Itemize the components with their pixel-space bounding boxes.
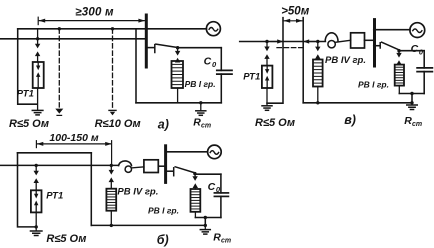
РТ1 external gap lower arrow (scheme б): [34, 178, 39, 190]
junction dot РВ I (scheme в): [397, 49, 400, 52]
РТ1 earth lead (scheme б): [35, 212, 38, 230]
РТ1 external gap upper arrow (scheme б): [34, 165, 39, 175]
РВ IV gap upper arrow (scheme б): [109, 165, 114, 174]
bottom earth wire (scheme в): [303, 102, 412, 104]
РТ1 earth lead (scheme в): [266, 88, 268, 106]
svg-text:100-150 м: 100-150 м: [49, 132, 98, 144]
tube arrester РТ1 (scheme в): [262, 66, 273, 88]
svg-text:С: С: [208, 181, 216, 193]
label 100-150 м: [49, 132, 98, 144]
dimension line ≥300 м (scheme а): [38, 17, 145, 24]
РВ IV junction dot (scheme б): [110, 164, 113, 167]
support ground lead 2 dashed (scheme а): [109, 27, 116, 115]
label С0 (scheme в): [411, 43, 424, 56]
label С0 (scheme б): [208, 181, 221, 194]
label R≤5 Ом (scheme в): [255, 117, 295, 129]
feeder to generator (scheme б): [167, 151, 208, 153]
РВ I earth lead (scheme в): [398, 86, 400, 94]
svg-text:ст: ст: [412, 121, 422, 128]
label R≤5 Ом (scheme б): [46, 233, 86, 245]
capacitor C0 plates (scheme в): [417, 68, 432, 72]
svg-text:ст: ст: [201, 123, 211, 130]
РТ1 earth lead (scheme а): [37, 88, 39, 110]
svg-text:R≤5 Ом: R≤5 Ом: [255, 117, 295, 129]
label >50м: [281, 5, 310, 17]
valve arrester РВ I гр. (scheme б): [191, 189, 201, 212]
РВ I gap upper arrow (scheme б): [192, 174, 197, 181]
svg-text:РВ I гр.: РВ I гр.: [358, 80, 389, 90]
РВ IV junction dot (scheme в): [316, 40, 319, 43]
РВ I earth lead (scheme б): [194, 212, 196, 218]
label R≤10 Ом (scheme а): [95, 118, 141, 130]
svg-text:0: 0: [419, 47, 424, 56]
wire box to bar (scheme в): [365, 39, 374, 41]
label С0 (scheme а): [204, 55, 217, 69]
svg-text:С: С: [411, 43, 419, 55]
РТ1 ground symbol (scheme б): [30, 231, 42, 236]
label Rст (scheme в): [404, 115, 422, 128]
ground-wire left downlead with loop to РТ1 earth (scheme а): [18, 29, 37, 104]
dimension line 100-150 м (scheme б): [36, 141, 111, 148]
generator G (scheme а): [206, 22, 220, 36]
svg-text:R: R: [193, 117, 201, 129]
bottom earth wire (scheme б): [91, 224, 205, 226]
cable sheath dashed (scheme в): [277, 47, 306, 49]
ground symbol Rст (scheme а): [196, 111, 206, 116]
svg-text:РТ1: РТ1: [243, 72, 260, 83]
cable left pole (scheme в): [267, 18, 283, 104]
generator G (scheme в): [410, 23, 425, 38]
ground wire right downlead (scheme б): [90, 153, 92, 226]
РТ1 junction dot (scheme в): [265, 40, 268, 43]
РТ1 ground symbol (scheme в): [262, 106, 272, 111]
РВ I gap lower arrow (scheme а): [175, 58, 180, 63]
svg-text:РВ IV гр.: РВ IV гр.: [117, 187, 158, 198]
feeder to generator (scheme в): [373, 28, 410, 31]
capacitor C0 bottom lead (scheme б): [220, 196, 222, 217]
valve arrester РВ IV гр. (scheme в): [313, 60, 323, 87]
svg-text:РВ I гр.: РВ I гр.: [148, 206, 179, 216]
svg-text:РТ1: РТ1: [17, 89, 34, 100]
disconnector jaw (scheme б): [167, 168, 174, 176]
station entrance bar (scheme в): [373, 20, 376, 66]
РВ IV earth lead (scheme б): [110, 211, 113, 227]
РВ IV pole tick (scheme б): [111, 141, 113, 166]
label Rст (scheme а): [193, 117, 211, 130]
ground symbol Rст (scheme в): [407, 105, 418, 110]
label РВ I гр. (scheme в): [358, 80, 389, 90]
svg-text:R≤10 Ом: R≤10 Ом: [95, 118, 141, 130]
label РТ1 (scheme а): [17, 89, 34, 100]
РТ1 tube (scheme а): [33, 62, 44, 88]
ground-wire station downlead (scheme а): [135, 29, 137, 103]
dimension line >50 м (scheme в): [283, 19, 303, 23]
РВ I earth lead (scheme а): [177, 88, 179, 103]
bottom earth wire (scheme а): [136, 102, 221, 104]
disconnector jaw (scheme в): [373, 43, 380, 48]
label ≥300 м: [75, 7, 114, 19]
label а): [158, 117, 169, 131]
junction dot РВ I (scheme б): [193, 172, 196, 175]
disconnector blade (scheme в): [382, 42, 400, 50]
label в): [344, 113, 356, 127]
tube arrester РТ1 (scheme б): [31, 190, 42, 212]
label РТ1 (scheme в): [243, 72, 260, 83]
ground wire left downlead with loop to РТ1 earth (scheme б): [18, 153, 37, 227]
РВ IV gap lower arrow (scheme в): [315, 54, 320, 59]
generator G (scheme б): [208, 145, 222, 159]
РВ I gap lower arrow (scheme в): [396, 60, 401, 65]
cable funnel (scheme в): [325, 33, 350, 48]
РВ IV gap upper arrow (scheme в): [315, 42, 320, 52]
РТ1 external gap upper arrow (scheme а): [35, 39, 40, 48]
svg-text:РТ1: РТ1: [46, 190, 63, 201]
bottom rail РВ-C0 (scheme б): [195, 216, 221, 226]
disconnector blade (scheme а): [156, 44, 178, 47]
phase conductor (line B, scheme а): [0, 38, 145, 40]
ground symbol Rст (scheme б): [200, 230, 210, 235]
junction dot РТ1 at phase line (scheme а): [36, 37, 39, 40]
РВ IV gap lower arrow (scheme б): [109, 177, 114, 188]
station entrance bar (scheme б): [164, 146, 167, 183]
capacitor C0 bottom lead (scheme в): [423, 72, 425, 94]
station earth stem Rст (scheme а): [199, 101, 202, 110]
cable funnel (scheme б): [119, 161, 144, 172]
disconnector jaw (scheme а): [148, 45, 155, 53]
svg-text:R: R: [213, 232, 221, 244]
station earth stem Rст (scheme в): [410, 101, 413, 105]
capacitor C0 plates (scheme а): [217, 70, 232, 74]
station entrance bar (scheme а): [145, 15, 148, 67]
valve arrester РВ I гр. (scheme в): [395, 65, 404, 86]
svg-text:РВ I гр.: РВ I гр.: [185, 79, 216, 89]
valve arrester РВ I гр. (scheme а): [172, 61, 184, 88]
svg-text:≥300 м: ≥300 м: [75, 7, 114, 19]
wire switch to C0 branch (scheme б): [195, 174, 221, 193]
label РВ IV гр. (scheme в): [325, 55, 366, 66]
cable section arrow right (scheme в): [303, 39, 315, 43]
wire switch to C0 branch (scheme а): [178, 48, 222, 71]
svg-text:0: 0: [212, 60, 217, 69]
label РТ1 (scheme б): [46, 190, 63, 201]
cable box (scheme б): [144, 160, 158, 173]
station earth stem Rст (scheme б): [204, 224, 207, 230]
wire box to bar (scheme б): [158, 165, 164, 167]
svg-text:R: R: [404, 115, 412, 127]
cable right pole (scheme в): [302, 18, 304, 103]
svg-text:РВ IV гр.: РВ IV гр.: [325, 55, 366, 66]
ground wire span (scheme б): [18, 152, 92, 154]
svg-text:ст: ст: [221, 238, 231, 245]
capacitor C0 bottom lead (scheme а): [220, 74, 222, 103]
label РВ I гр. (scheme а): [185, 79, 216, 89]
label РВ I гр. (scheme б): [148, 206, 179, 216]
РВ IV earth lead (scheme в): [316, 87, 319, 105]
label R≤5 Ом (scheme а): [9, 118, 49, 130]
ground wire (top line A, scheme а): [18, 28, 207, 30]
disconnector blade (scheme б): [175, 167, 195, 173]
tube arrester РТ1 pole wire (scheme а): [37, 29, 39, 40]
РТ1 external gap lower arrow (scheme а): [35, 51, 40, 62]
svg-text:в): в): [344, 113, 356, 127]
wire switch to C0 branch (scheme в): [399, 51, 424, 68]
cable box (scheme в): [351, 33, 365, 48]
РВ I gap upper arrow (scheme в): [396, 51, 401, 58]
support ground lead 1 dashed (scheme а): [55, 27, 63, 115]
svg-text:а): а): [158, 117, 169, 131]
phase conductor (scheme б): [0, 164, 118, 166]
РТ1 junction dot (scheme б): [35, 164, 38, 167]
capacitor C0 plates (scheme б): [214, 193, 228, 197]
bottom rail РВ-C0 (scheme в): [399, 92, 424, 103]
label Rст (scheme б): [213, 232, 231, 245]
РВ I gap upper arrow (scheme а): [175, 48, 180, 56]
svg-text:>50м: >50м: [281, 5, 310, 17]
РТ1 ground symbol (scheme а): [32, 110, 43, 115]
svg-text:б): б): [157, 233, 169, 247]
svg-text:R≤5 Ом: R≤5 Ом: [9, 118, 49, 130]
svg-text:R≤5 Ом: R≤5 Ом: [46, 233, 86, 245]
svg-text:С: С: [204, 55, 212, 67]
cable section arrow left (scheme в): [271, 39, 283, 43]
junction dot РВ I (scheme а): [176, 46, 179, 49]
РВ I gap lower arrow (scheme б): [193, 183, 198, 189]
label б): [157, 233, 169, 247]
label РВ IV гр. (scheme б): [117, 187, 158, 198]
phase conductor (scheme в): [240, 41, 326, 43]
РТ1 external gap upper arrow (scheme в): [264, 42, 269, 52]
valve arrester РВ IV гр. (scheme б): [106, 189, 116, 211]
РТ1 external gap lower arrow (scheme в): [264, 54, 269, 65]
